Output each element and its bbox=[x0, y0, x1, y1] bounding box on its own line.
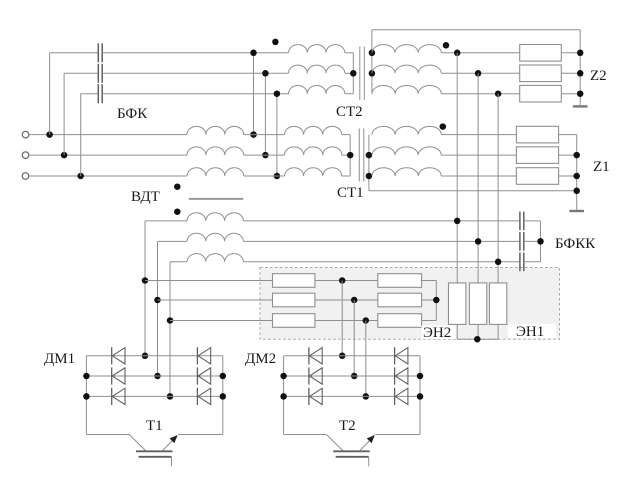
svg-text:Z2: Z2 bbox=[590, 68, 607, 84]
svg-text:ЭН2: ЭН2 bbox=[423, 325, 451, 341]
svg-text:БФКК: БФКК bbox=[555, 236, 596, 252]
svg-text:СТ2: СТ2 bbox=[336, 104, 363, 120]
svg-text:СТ1: СТ1 bbox=[337, 185, 364, 201]
svg-text:ДМ2: ДМ2 bbox=[245, 351, 276, 367]
svg-text:БФК: БФК bbox=[117, 106, 148, 122]
svg-text:Т1: Т1 bbox=[146, 418, 163, 434]
svg-text:ДМ1: ДМ1 bbox=[44, 351, 75, 367]
svg-text:Т2: Т2 bbox=[339, 418, 356, 434]
svg-text:ВДТ: ВДТ bbox=[131, 189, 160, 205]
svg-text:Z1: Z1 bbox=[593, 159, 610, 175]
svg-text:ЭН1: ЭН1 bbox=[516, 324, 544, 340]
